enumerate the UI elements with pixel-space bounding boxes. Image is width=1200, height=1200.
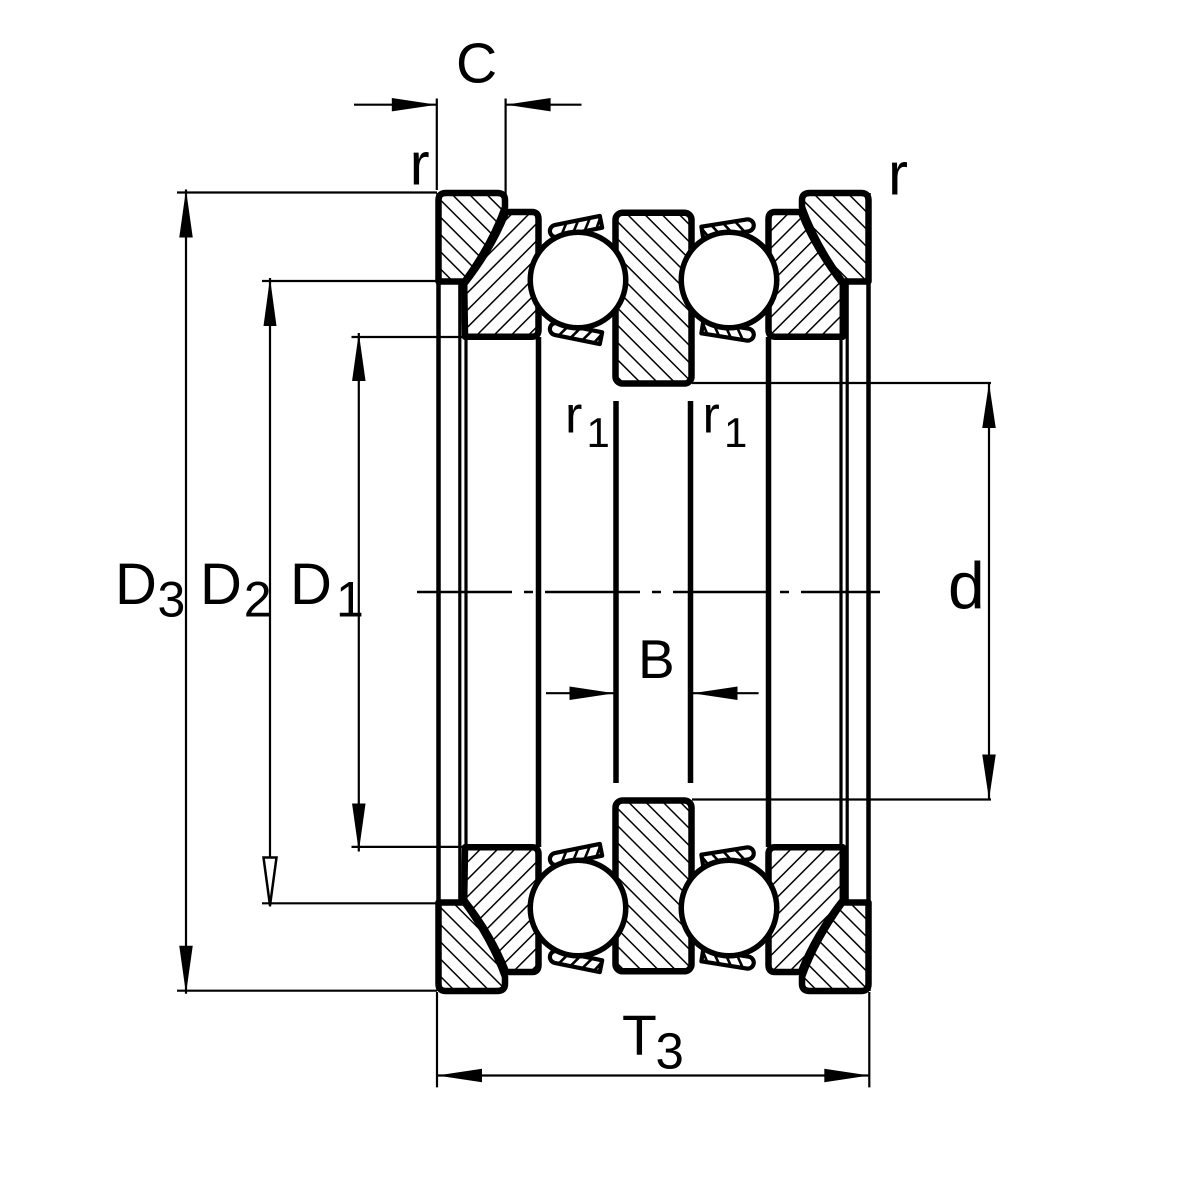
centerline (bearing axis, dash-dot)	[417, 591, 880, 593]
seat washer bottom-right	[802, 903, 869, 992]
bore silhouette lines	[439, 193, 869, 991]
cage strap lower-right ball top	[701, 847, 754, 867]
svg-text:C: C	[456, 32, 497, 96]
seat washer top-right	[802, 193, 869, 282]
dimension D1	[358, 333, 360, 852]
shaft washer top section	[616, 213, 692, 384]
cage strap upper-left ball bottom	[549, 322, 602, 344]
dimension T3	[437, 1074, 869, 1076]
seat washer bottom-left	[439, 903, 506, 992]
shaft washer bottom section	[616, 801, 692, 972]
seat washer top-left	[439, 193, 506, 282]
svg-text:D: D	[115, 552, 157, 617]
svg-text:r: r	[703, 387, 720, 445]
svg-text:r: r	[888, 141, 908, 208]
housing washer bottom-left	[464, 847, 538, 972]
housing washer top-right	[769, 212, 843, 337]
dimension D2 (bottom arrow open)	[269, 278, 271, 907]
dimension C	[354, 104, 582, 106]
svg-text:r: r	[410, 131, 430, 198]
svg-text:d: d	[948, 549, 985, 623]
cage strap upper-right ball bottom	[701, 322, 754, 342]
svg-text:T: T	[622, 1004, 657, 1068]
dimension B	[546, 692, 759, 694]
svg-text:r: r	[565, 387, 582, 445]
svg-text:1: 1	[587, 409, 610, 456]
svg-text:1: 1	[336, 572, 364, 628]
housing washer top-left	[464, 212, 538, 337]
cage strap lower-left ball top	[549, 844, 602, 866]
housing washer bottom-right	[769, 847, 843, 972]
ball lower-right	[681, 860, 777, 956]
svg-text:2: 2	[244, 572, 272, 628]
cage strap upper-left ball top	[549, 216, 602, 238]
svg-text:3: 3	[656, 1023, 684, 1080]
svg-text:D: D	[200, 552, 242, 617]
svg-text:B: B	[638, 628, 675, 690]
dimension d	[988, 383, 990, 800]
ball upper-left	[530, 232, 626, 328]
cage strap lower-left ball bottom	[549, 950, 602, 972]
ball upper-right	[681, 232, 777, 328]
cage strap upper-right ball top	[701, 219, 754, 239]
svg-text:D: D	[290, 552, 332, 617]
dimension D3	[185, 190, 187, 994]
cage strap lower-right ball bottom	[701, 950, 754, 970]
svg-text:3: 3	[158, 572, 186, 628]
extension lines	[177, 99, 991, 1088]
svg-text:1: 1	[724, 409, 747, 456]
ball lower-left	[530, 860, 626, 956]
